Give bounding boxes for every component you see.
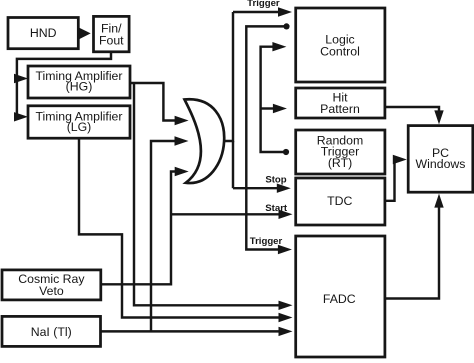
block HND [8, 18, 78, 49]
block Logic Control [296, 8, 385, 82]
wire Trigger to Logic Control [233, 7, 292, 16]
wire NaI tee up to OR gate input 2 [151, 136, 189, 331]
block Hit Pattern [296, 88, 385, 118]
wire Start to TDC [171, 210, 293, 219]
block NaI (Tl) [2, 316, 101, 346]
svg-text:Trigger: Trigger [247, 0, 280, 9]
block Fin/Fout [94, 16, 130, 51]
wire NaI output to FADC input 3 [100, 327, 293, 336]
or-gate [185, 99, 225, 183]
block FADC [296, 236, 385, 357]
block Timing Amplifier (HG) [28, 66, 130, 98]
svg-text:(RT): (RT) [328, 156, 352, 170]
svg-text:TDC: TDC [327, 194, 352, 208]
block TDC [296, 178, 385, 225]
svg-text:Stop: Stop [265, 175, 286, 186]
svg-text:Control: Control [320, 44, 360, 58]
junction dot at Logic Control output [283, 23, 289, 29]
svg-text:NaI (Tl): NaI (Tl) [31, 325, 72, 339]
svg-text:HND: HND [30, 26, 57, 40]
junction dot at Random Trigger output [283, 149, 289, 155]
wire FADC output to PC Windows [385, 194, 444, 299]
svg-text:Windows: Windows [416, 157, 466, 171]
block Timing Amplifier (LG) [28, 106, 130, 138]
wire Random Trigger branch to Hit Pattern [261, 104, 287, 113]
svg-text:Veto: Veto [39, 284, 64, 298]
wire Hit Pattern output to PC Windows [385, 107, 444, 124]
svg-text:Pattern: Pattern [320, 102, 360, 116]
svg-text:Start: Start [265, 203, 288, 214]
wire Fin/Fout to amplifier inputs [14, 52, 111, 122]
block Random Trigger (RT) [296, 130, 385, 174]
wire TDC output to PC Windows [385, 155, 407, 201]
wire HG output to OR gate input 1 [130, 83, 189, 125]
wire OR output trunk [225, 12, 233, 188]
block PC Windows [408, 126, 473, 193]
wire LG bottom output to FADC input 2 [79, 138, 293, 322]
svg-text:(LG): (LG) [67, 120, 92, 134]
svg-text:Trigger: Trigger [250, 236, 283, 247]
wire Logic Control output to FADC trigger [246, 26, 292, 254]
svg-text:Fout: Fout [99, 34, 124, 48]
svg-text:(HG): (HG) [66, 79, 93, 93]
wire Random Trigger output to Logic Control [261, 42, 287, 152]
wire HND to Fin/Fout arrow [79, 28, 91, 40]
block Cosmic Ray Veto [2, 270, 101, 300]
svg-text:FADC: FADC [323, 292, 356, 306]
wire Stop to TDC [233, 184, 291, 193]
wire HG tee down to FADC input 1 [134, 83, 293, 310]
wire Cosmic Ray Veto output up to OR gate input 3 [100, 167, 189, 284]
